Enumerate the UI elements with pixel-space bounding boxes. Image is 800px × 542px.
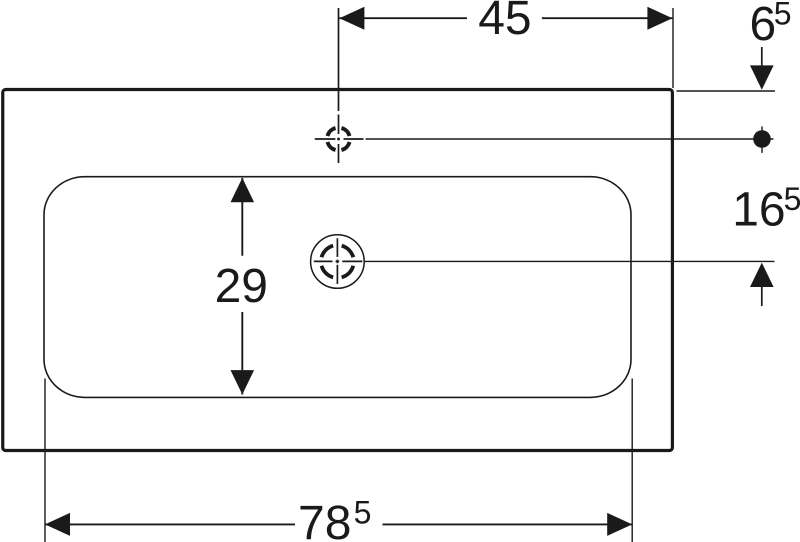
dimension 16.5 dot — [753, 130, 771, 148]
tap hole leader line to right — [366, 138, 774, 140]
dimension 78.5 extension line left — [44, 379, 46, 542]
svg-text:29: 29 — [215, 260, 268, 313]
dimension 45 arrow right — [647, 7, 672, 30]
tap hole centerline vertical — [338, 8, 340, 163]
dimension 78.5 extension line right — [631, 379, 633, 542]
dimension 78.5 arrow right — [607, 513, 632, 536]
drain inner dashed circle — [322, 246, 354, 278]
dimension 16.5 arrow tail — [761, 286, 763, 306]
drain outer circle — [311, 235, 365, 289]
dimension 29 arrow down — [231, 370, 255, 394]
dimension 45 extension line right — [672, 8, 674, 88]
svg-text:45: 45 — [478, 0, 531, 45]
dimension 6.5 arrow tail — [761, 47, 763, 66]
drain centerline horizontal — [314, 260, 363, 262]
dimension 78.5 arrow left — [45, 513, 70, 536]
tap hole — [327, 128, 349, 150]
tap hole centerline horizontal — [315, 138, 364, 140]
dimension 78.5 line — [45, 523, 632, 525]
basin outline — [3, 90, 673, 451]
dimension 29 line — [241, 178, 243, 395]
dimension 45 line — [339, 17, 672, 19]
dimension 16.5 dot tick — [761, 126, 763, 152]
svg-text:165: 165 — [732, 181, 800, 237]
dimension 16.5 arrow — [750, 263, 774, 287]
svg-text:785: 785 — [298, 495, 371, 542]
dimension 45 arrow left — [339, 7, 364, 30]
drain centerline vertical — [336, 238, 338, 284]
svg-text:65: 65 — [750, 0, 792, 51]
drain leader line to right — [364, 260, 774, 262]
bowl — [44, 177, 631, 398]
dimension 6.5 arrow — [750, 65, 774, 89]
dimension 29 arrow up — [231, 178, 255, 202]
dimension 6.5 extension line — [677, 90, 776, 92]
